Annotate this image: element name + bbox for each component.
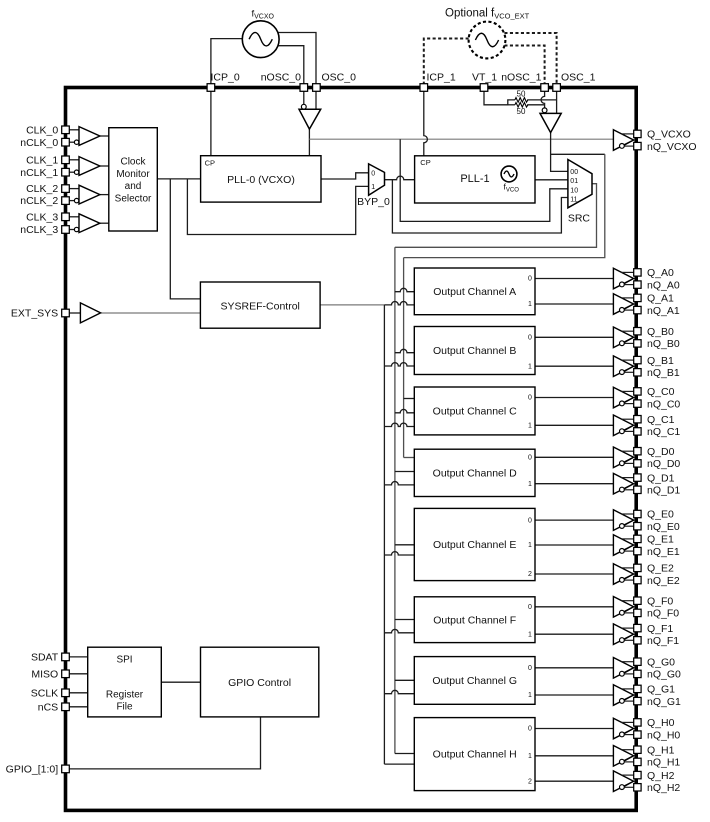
svg-text:Q_E2: Q_E2 — [647, 563, 674, 575]
svg-text:SRC: SRC — [568, 213, 591, 225]
svg-text:nCLK_3: nCLK_3 — [20, 224, 58, 236]
svg-text:nOSC_0: nOSC_0 — [261, 72, 301, 84]
wire SYSREF-Control output — [320, 304, 384, 306]
svg-text:Output Channel A: Output Channel A — [433, 286, 516, 298]
svg-text:nQ_E0: nQ_E0 — [647, 521, 680, 533]
pin Q_E2 — [634, 564, 641, 571]
wire Channel C output 1 to buffer — [535, 424, 613, 426]
svg-text:Output Channel G: Output Channel G — [432, 675, 517, 687]
svg-text:1: 1 — [528, 363, 532, 370]
wire EXT_SYS to buffer — [69, 312, 80, 314]
wire R1 to OSC_1 net — [527, 99, 556, 101]
wire Channel B output 0 to buffer — [535, 336, 613, 338]
svg-text:nQ_C0: nQ_C0 — [647, 398, 680, 410]
svg-text:nQ_A0: nQ_A0 — [647, 279, 680, 291]
block Output Channel G — [414, 657, 535, 705]
resistor R1 50 ohm — [515, 98, 528, 103]
svg-text:10: 10 — [570, 188, 578, 195]
wire fVCXO to OSC_0 — [278, 33, 316, 88]
wire Channel D output 0 to buffer — [535, 456, 613, 458]
block Output Channel E — [414, 508, 535, 580]
svg-text:Q_E1: Q_E1 — [647, 534, 674, 546]
svg-text:nQ_A1: nQ_A1 — [647, 305, 680, 317]
svg-text:1: 1 — [528, 542, 532, 549]
wire SYSREF rail to Channel E (hop) — [384, 552, 414, 555]
wire U2 output to Q_VCXO buffer (node VCXO_CLK) — [309, 138, 613, 140]
wire ICP_1 to PLL-1 CP (hop over VCXO line) — [424, 91, 428, 156]
pin nQ_H1 — [634, 758, 641, 765]
chip boundary — [66, 88, 637, 811]
pin nQ_H2 — [634, 784, 641, 791]
pin MISO — [62, 670, 70, 678]
pin SDAT — [62, 653, 70, 661]
svg-text:50: 50 — [517, 90, 526, 99]
wire SRC rail to Channel E — [395, 544, 414, 546]
pin Q_E1 — [634, 535, 641, 542]
wire Clock Monitor to SYSREF-Control — [170, 179, 200, 299]
svg-text:nQ_VCXO: nQ_VCXO — [647, 141, 697, 153]
wire ICP_0 to PLL-0 CP — [210, 91, 212, 156]
svg-text:nCS: nCS — [38, 701, 58, 713]
input buffer U8 (EXT_SYS) — [80, 303, 100, 323]
output buffer A0 — [613, 268, 633, 289]
wire SYSREF rail to Channel C (hops) — [384, 423, 414, 426]
svg-text:Q_C0: Q_C0 — [647, 386, 675, 398]
wire Channel H output 2 to buffer — [535, 780, 613, 782]
wire SRC rail to Channel D — [395, 471, 414, 473]
wire clk buffer 3 to Clock Monitor — [100, 222, 109, 224]
wire SDAT to SPI — [69, 656, 87, 658]
wire Channel A output 0 to buffer — [535, 278, 613, 280]
svg-text:0: 0 — [528, 604, 532, 611]
svg-text:nQ_E1: nQ_E1 — [647, 546, 680, 558]
wire SRC rail to Channel B (hop) — [395, 349, 414, 352]
svg-text:PLL-0 (VCXO): PLL-0 (VCXO) — [227, 174, 295, 186]
wire VCXO rail to Channel D — [404, 457, 415, 459]
pin nCLK_2 — [62, 197, 70, 205]
wire fVCXO to ICP_0 — [211, 39, 243, 88]
pin Q_G1 — [634, 685, 641, 692]
wire SYSREF rail to Channel D (hop) — [384, 481, 414, 484]
wire Channel E output 0 to buffer — [535, 519, 613, 521]
wire U3 output to SRC input 00 — [551, 133, 568, 172]
wire BYP_0 output to PLL-1 (hop) — [385, 176, 415, 180]
svg-text:nOSC_1: nOSC_1 — [501, 72, 541, 84]
wire SRC rail to Channel A (hop) — [395, 288, 414, 291]
wire EXT_SYS buffer to SYSREF-Control — [101, 312, 201, 314]
wire BYP_0 output branch down x=392.4 — [392, 180, 568, 233]
pin Q_C1 — [634, 416, 641, 423]
pin nCS — [62, 703, 70, 711]
pin Q_A1 — [634, 294, 641, 301]
wire SCLK to SPI — [69, 692, 87, 694]
svg-text:ICP_0: ICP_0 — [211, 72, 240, 84]
svg-text:00: 00 — [570, 169, 578, 176]
svg-text:EXT_SYS: EXT_SYS — [11, 308, 58, 320]
output buffer C1 — [613, 415, 633, 436]
wire U3 output branch to right rail — [551, 153, 605, 155]
output buffer F0 — [613, 597, 633, 618]
svg-text:PLL-1: PLL-1 — [460, 173, 489, 185]
wire clk buffer 1 to Clock Monitor — [100, 165, 109, 167]
svg-text:nQ_B1: nQ_B1 — [647, 367, 680, 379]
pin SCLK — [62, 689, 70, 697]
output buffer Q_VCXO — [613, 130, 633, 151]
pin nQ_A0 — [634, 281, 641, 288]
output buffer H1 — [613, 746, 633, 767]
svg-text:GPIO_[1:0]: GPIO_[1:0] — [6, 764, 59, 776]
pin nQ_B0 — [634, 340, 641, 347]
wire CLK_0 to buffer — [69, 129, 79, 131]
svg-text:Q_D0: Q_D0 — [647, 446, 675, 458]
pin Q_D1 — [634, 474, 641, 481]
wire Channel H output 1 to buffer — [535, 755, 613, 757]
wire VCXO rail to Channel C — [404, 398, 415, 400]
svg-text:2: 2 — [528, 571, 532, 578]
wire Channel G output 1 to buffer — [535, 694, 613, 696]
block Output Channel B — [414, 327, 535, 375]
svg-text:Q_G1: Q_G1 — [647, 684, 675, 696]
input buffer U5 (CLK_1) — [79, 157, 100, 176]
wire SYSREF rail to Channel B (hops) — [384, 363, 414, 366]
svg-text:nQ_H2: nQ_H2 — [647, 782, 680, 794]
pin nQ_H0 — [634, 731, 641, 738]
wire Channel B output 1 to buffer — [535, 365, 613, 367]
svg-text:CP: CP — [205, 159, 215, 168]
svg-text:Q_B0: Q_B0 — [647, 326, 674, 338]
pin CLK_1 — [62, 156, 70, 164]
block PLL-0 (VCXO) — [201, 156, 321, 202]
bubble on nCLK_3 — [74, 227, 78, 231]
wire right rail down (VCXO clock return) — [404, 154, 605, 257]
wire CLK_3 to buffer — [69, 216, 79, 218]
output buffer D1 — [613, 473, 633, 494]
pin CLK_0 — [62, 126, 70, 134]
svg-text:GPIO Control: GPIO Control — [228, 677, 291, 689]
svg-text:0: 0 — [528, 395, 532, 402]
pin Q_C0 — [634, 388, 641, 395]
svg-text:MISO: MISO — [31, 668, 58, 680]
wire SYSREF rail to Channel F (hop) — [384, 629, 414, 632]
svg-text:0: 0 — [528, 335, 532, 342]
output buffer B0 — [613, 327, 633, 348]
pin nQ_E1 — [634, 547, 641, 554]
svg-text:Q_C1: Q_C1 — [647, 414, 675, 426]
svg-text:CLK_0: CLK_0 — [26, 124, 58, 136]
wire Channel F output 0 to buffer — [535, 606, 613, 608]
svg-text:Output Channel C: Output Channel C — [433, 406, 517, 418]
pin EXT_SYS — [62, 309, 70, 317]
mux BYP_0 — [369, 164, 385, 195]
wire Channel E output 1 to buffer — [535, 544, 613, 546]
wire Channel C output 0 to buffer — [535, 397, 613, 399]
svg-text:Clock: Clock — [120, 156, 146, 167]
output buffer E0 — [613, 510, 633, 531]
output buffer H2 — [613, 771, 633, 792]
svg-text:1: 1 — [371, 184, 375, 191]
svg-text:nCLK_2: nCLK_2 — [20, 195, 58, 207]
svg-text:ICP_1: ICP_1 — [427, 72, 456, 84]
wire nCLK_3 to buffer bubble — [69, 229, 74, 231]
svg-text:nQ_G0: nQ_G0 — [647, 669, 681, 681]
pin CLK_3 — [62, 213, 70, 221]
wire Clock Monitor to PLL-0 — [157, 178, 200, 180]
wire nCLK_0 to buffer bubble — [69, 141, 74, 143]
pin nQ_E0 — [634, 523, 641, 530]
bubble on nCLK_2 — [74, 198, 78, 202]
svg-text:nQ_E2: nQ_E2 — [647, 575, 680, 587]
svg-text:SYSREF-Control: SYSREF-Control — [221, 301, 300, 313]
output buffer A1 — [613, 294, 633, 315]
svg-text:nQ_C1: nQ_C1 — [647, 426, 680, 438]
pin nQ_B1 — [634, 369, 641, 376]
wire SYSREF rail to Channel G (hop) — [384, 690, 414, 693]
pin Q_VCXO — [634, 130, 641, 137]
wire Channel G output 0 to buffer — [535, 667, 613, 669]
svg-text:BYP_0: BYP_0 — [357, 196, 390, 208]
svg-text:0: 0 — [528, 665, 532, 672]
wire R2 to nOSC_1 net — [527, 104, 544, 106]
mux SRC — [568, 160, 592, 208]
svg-text:1: 1 — [528, 753, 532, 760]
svg-text:Q_G0: Q_G0 — [647, 656, 675, 668]
pin nQ_C0 — [634, 400, 641, 407]
wire SPI to GPIO Control — [161, 681, 200, 683]
svg-text:CLK_2: CLK_2 — [26, 183, 58, 195]
svg-text:nQ_G1: nQ_G1 — [647, 696, 681, 708]
svg-text:Output Channel E: Output Channel E — [433, 539, 516, 551]
svg-text:SCLK: SCLK — [31, 687, 58, 699]
svg-text:01: 01 — [570, 178, 578, 185]
wire SYSREF rail x=384.4 — [383, 305, 385, 764]
svg-text:Register: Register — [106, 690, 144, 701]
svg-text:OSC_0: OSC_0 — [322, 72, 357, 84]
output buffer E2 — [613, 564, 633, 585]
pin ICP_0 — [207, 84, 215, 92]
pin nQ_VCXO — [634, 142, 641, 149]
wire PLL-1 output to SRC input 01 — [535, 179, 568, 181]
wire VT_1 lower branch — [508, 104, 515, 106]
svg-text:Output Channel D: Output Channel D — [433, 467, 517, 479]
output buffer H0 — [613, 718, 633, 739]
output buffer D0 — [613, 447, 633, 468]
pin OSC_0 — [313, 84, 321, 92]
wire CLK_2 to buffer — [69, 188, 79, 190]
svg-text:CLK_3: CLK_3 — [26, 211, 58, 223]
wire nCLK_1 to buffer bubble — [69, 171, 74, 173]
svg-text:SDAT: SDAT — [31, 652, 59, 664]
wire GPIO_[1:0] to GPIO Control — [69, 717, 260, 769]
wire SRC rail to Channel G — [395, 679, 414, 681]
svg-text:Q_H2: Q_H2 — [647, 770, 675, 782]
pin Q_B1 — [634, 356, 641, 363]
bubble on nCLK_1 — [74, 170, 78, 174]
pin nCLK_3 — [62, 226, 70, 234]
svg-text:0: 0 — [528, 455, 532, 462]
pin nQ_F0 — [634, 609, 641, 616]
pin Q_F0 — [634, 597, 641, 604]
svg-text:Q_A1: Q_A1 — [647, 293, 674, 305]
block Output Channel A — [414, 268, 535, 315]
wire Channel A output 1 to buffer — [535, 303, 613, 305]
wire Channel E output 2 to buffer — [535, 573, 613, 575]
svg-text:OSC_1: OSC_1 — [561, 72, 596, 84]
svg-text:Q_E0: Q_E0 — [647, 509, 674, 521]
svg-text:Monitor: Monitor — [116, 169, 150, 180]
wire Channel D output 1 to buffer — [535, 483, 613, 485]
svg-text:Q_B1: Q_B1 — [647, 355, 674, 367]
svg-text:CLK_1: CLK_1 — [26, 154, 58, 166]
svg-text:11: 11 — [570, 196, 577, 203]
output buffer C0 — [613, 387, 633, 408]
input buffer U6 (CLK_2) — [79, 185, 100, 204]
block Clock Monitor and Selector — [109, 128, 158, 231]
input buffer U4 (CLK_0) — [79, 127, 100, 146]
svg-text:2: 2 — [528, 778, 532, 785]
pin nOSC_1 — [541, 84, 549, 92]
input buffer U7 (CLK_3) — [79, 214, 100, 233]
svg-text:CP: CP — [420, 158, 430, 167]
pin Q_F1 — [634, 624, 641, 631]
wire nOSC_0 to U2 bubble — [303, 91, 305, 104]
wire SRC output — [395, 184, 597, 248]
wire SYSREF to Channel A (hops) — [384, 301, 414, 304]
wire nCS to SPI — [69, 706, 87, 708]
wire fVCO_EXT to ICP_1 (dashed) — [424, 39, 469, 88]
block GPIO Control — [201, 647, 319, 717]
output buffer G0 — [613, 658, 633, 679]
svg-text:VT_1: VT_1 — [472, 72, 497, 84]
wire clk buffer 0 to Clock Monitor — [100, 135, 109, 137]
svg-text:50: 50 — [517, 107, 526, 116]
svg-text:1: 1 — [528, 692, 532, 699]
bubble on nCLK_0 — [74, 140, 78, 144]
pin nCLK_0 — [62, 138, 70, 146]
block Output Channel F — [414, 597, 535, 643]
wire vertical rail x=394.9 (SRC clock) — [394, 247, 396, 753]
pin nQ_G1 — [634, 697, 641, 704]
wire nCLK_2 to buffer bubble — [69, 200, 74, 202]
oscillator symbol fVCO inside PLL-1 — [501, 166, 517, 182]
wire Channel F output 1 to buffer — [535, 633, 613, 635]
pin Q_A0 — [634, 269, 641, 276]
block PLL-1 — [415, 156, 535, 203]
wire SRC rail to Channel C (hop) — [395, 409, 414, 412]
wire U2 output to PLL-0 — [308, 129, 310, 156]
svg-text:Output Channel B: Output Channel B — [433, 345, 516, 357]
wire OSC_1 to U3 — [556, 91, 558, 113]
pin nQ_A1 — [634, 306, 641, 313]
pin VT_1 — [480, 84, 488, 92]
svg-text:nQ_F1: nQ_F1 — [647, 635, 679, 647]
wire vertical rail x=403.6 (VCXO clock) — [403, 258, 405, 458]
oscillator fVCO_EXT (optional, dashed) — [469, 22, 506, 59]
svg-text:nQ_D1: nQ_D1 — [647, 485, 680, 497]
svg-text:1: 1 — [528, 423, 532, 430]
svg-text:Q_D1: Q_D1 — [647, 472, 675, 484]
wire Clock Monitor to BYP_0 input 1 — [187, 179, 368, 235]
svg-text:nQ_B0: nQ_B0 — [647, 338, 680, 350]
pin Q_G0 — [634, 658, 641, 665]
svg-text:Q_H0: Q_H0 — [647, 717, 675, 729]
inverter U2 input bubble — [301, 104, 306, 109]
svg-text:nQ_H0: nQ_H0 — [647, 729, 680, 741]
inverter U2 (VCXO osc input) — [299, 109, 321, 129]
block SYSREF-Control — [200, 282, 320, 328]
svg-text:File: File — [116, 702, 133, 713]
svg-text:SPI: SPI — [116, 654, 132, 665]
wire SRC rail to Channel H — [395, 753, 414, 755]
output buffer B1 — [613, 356, 633, 377]
pin Q_E0 — [634, 510, 641, 517]
wire clk buffer 2 to Clock Monitor — [100, 194, 109, 196]
pin nQ_G0 — [634, 670, 641, 677]
svg-text:Q_H1: Q_H1 — [647, 744, 675, 756]
block Output Channel D — [414, 449, 535, 496]
pin Q_H2 — [634, 771, 641, 778]
block Output Channel H — [414, 718, 535, 791]
pin nOSC_0 — [300, 84, 308, 92]
wire Channel H output 0 to buffer — [535, 728, 613, 730]
pin CLK_2 — [62, 185, 70, 193]
svg-text:nQ_F0: nQ_F0 — [647, 608, 679, 620]
resistor R2 50 ohm — [515, 103, 528, 108]
svg-text:Output Channel H: Output Channel H — [433, 749, 517, 761]
output buffer G1 — [613, 685, 633, 706]
svg-text:Selector: Selector — [115, 194, 152, 205]
svg-text:1: 1 — [528, 481, 532, 488]
pin nQ_F1 — [634, 637, 641, 644]
svg-text:nQ_H1: nQ_H1 — [647, 757, 680, 769]
svg-text:Q_F0: Q_F0 — [647, 595, 673, 607]
wire SYSREF rail to Channel H — [384, 763, 414, 765]
inverter U3 (external osc input) — [540, 113, 561, 132]
svg-text:nCLK_0: nCLK_0 — [20, 137, 58, 149]
output buffer F1 — [613, 624, 633, 645]
pin OSC_1 — [553, 84, 561, 92]
svg-text:Output Channel F: Output Channel F — [433, 614, 516, 626]
svg-text:Q_VCXO: Q_VCXO — [647, 129, 691, 141]
pin Q_D0 — [634, 448, 641, 455]
wire PLL-0 output to BYP_0 input 0 — [321, 173, 369, 179]
block Output Channel C — [414, 387, 535, 435]
oscillator fVCXO — [242, 21, 279, 58]
wire VT_1 to resistors — [484, 91, 515, 105]
wire SRC rail to Channel F — [395, 619, 414, 621]
svg-text:0: 0 — [371, 171, 375, 178]
wire fVCO_EXT to OSC_1 (dashed) — [504, 33, 556, 88]
wire CLK_1 to buffer — [69, 159, 79, 161]
inverter U3 input bubble — [542, 108, 547, 113]
svg-text:0: 0 — [528, 726, 532, 733]
wire VCXO line to SRC input 10 — [400, 139, 568, 221]
wire OSC_0 to U2 — [315, 91, 317, 109]
pin nQ_D1 — [634, 486, 641, 493]
pin Q_B0 — [634, 328, 641, 335]
pin ICP_1 — [420, 84, 428, 92]
pin Q_H0 — [634, 719, 641, 726]
pin nCLK_1 — [62, 168, 70, 176]
pin nQ_D0 — [634, 460, 641, 467]
pin GPIO_[1:0] — [62, 765, 70, 773]
wire nOSC_1 to U3 bubble (hop over R1 wire) — [541, 91, 544, 108]
svg-text:nCLK_1: nCLK_1 — [20, 167, 58, 179]
svg-text:0: 0 — [528, 517, 532, 524]
svg-text:1: 1 — [528, 301, 532, 308]
output buffer E1 — [613, 535, 633, 556]
pin nQ_E2 — [634, 576, 641, 583]
wire fVCXO to nOSC_0 — [278, 46, 304, 88]
